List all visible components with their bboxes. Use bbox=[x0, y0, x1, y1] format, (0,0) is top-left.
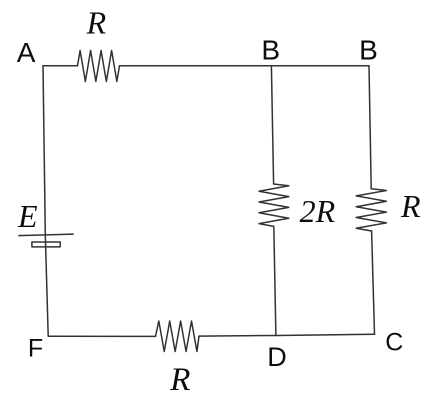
wire: left side A down to battery bbox=[43, 66, 48, 336]
svg-text:2R: 2R bbox=[300, 193, 336, 229]
wire: middle branch, 2R down to node D bbox=[274, 226, 276, 335]
wire: middle branch, B down to 2R bbox=[271, 66, 273, 184]
svg-text:F: F bbox=[28, 335, 43, 363]
svg-text:R: R bbox=[169, 362, 190, 398]
wire: top side, resistor to right corner B bbox=[120, 65, 370, 67]
svg-text:R: R bbox=[86, 5, 107, 41]
svg-text:A: A bbox=[17, 37, 36, 68]
svg-text:E: E bbox=[17, 198, 38, 234]
wire: bottom, resistor to node D bbox=[199, 335, 276, 338]
resistor R1 (top) bbox=[78, 51, 120, 82]
svg-text:R: R bbox=[400, 188, 421, 224]
battery E bottom plate (rectangle) bbox=[32, 242, 60, 247]
svg-text:D: D bbox=[267, 342, 287, 372]
resistor R2 (bottom) bbox=[156, 321, 200, 352]
resistor R4 (right, R) bbox=[356, 189, 386, 231]
svg-text:B: B bbox=[359, 34, 378, 65]
battery E top plate (long) bbox=[19, 234, 73, 236]
wire: bottom, node D to corner C bbox=[276, 334, 375, 335]
svg-text:C: C bbox=[385, 328, 403, 356]
wire: top side A to B (left part) bbox=[43, 65, 78, 67]
wire: right side, resistor down to corner C bbox=[372, 231, 375, 334]
svg-text:B: B bbox=[261, 34, 280, 65]
resistor R3 (middle, 2R) bbox=[259, 184, 289, 226]
wire: right side, B down to resistor bbox=[369, 66, 371, 189]
wire: bottom, F to resistor bbox=[48, 335, 155, 337]
